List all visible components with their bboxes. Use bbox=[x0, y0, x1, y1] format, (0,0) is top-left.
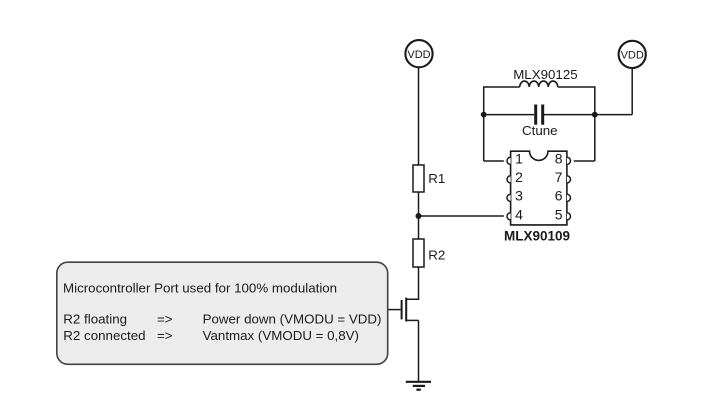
node VMODU junction bbox=[416, 213, 422, 219]
svg-text:=>: => bbox=[157, 311, 173, 326]
svg-text:7: 7 bbox=[555, 169, 563, 185]
power symbol VDD (left) bbox=[405, 40, 432, 67]
svg-text:Vantmax (VMODU = 0,8V): Vantmax (VMODU = 0,8V) bbox=[203, 328, 359, 343]
svg-text:5: 5 bbox=[555, 206, 563, 222]
pin 6 bump bbox=[567, 194, 571, 201]
svg-text:=>: => bbox=[157, 328, 173, 343]
pin 2 bump bbox=[507, 176, 511, 183]
inductor MLX90125 coil bbox=[520, 81, 558, 87]
wire to pin 8 bbox=[574, 160, 595, 162]
wire R2 to transistor drain bbox=[407, 267, 419, 299]
wire VDD to R1 bbox=[418, 67, 420, 165]
wire VDD right down to tank bbox=[631, 68, 633, 115]
svg-text:Power down (VMODU = VDD): Power down (VMODU = VDD) bbox=[203, 311, 382, 326]
svg-text:2: 2 bbox=[515, 169, 523, 185]
svg-text:VDD: VDD bbox=[407, 49, 430, 61]
pin 1 bump bbox=[507, 157, 511, 164]
callout note box bbox=[57, 262, 388, 364]
resistor R2 bbox=[413, 239, 424, 267]
note line 2 bbox=[63, 311, 381, 326]
svg-text:R2 connected: R2 connected bbox=[63, 328, 145, 343]
transistor Q1 (NMOS) bbox=[402, 298, 419, 322]
svg-text:R2 floating: R2 floating bbox=[63, 311, 127, 326]
wire gate lead from callout bbox=[388, 309, 401, 311]
wire capacitor row bbox=[484, 114, 633, 116]
svg-text:6: 6 bbox=[555, 188, 563, 204]
node tank left junction bbox=[481, 112, 487, 118]
svg-text:MLX90125: MLX90125 bbox=[513, 67, 577, 82]
power symbol VDD (right) bbox=[619, 41, 646, 68]
svg-text:Microcontroller Port used for: Microcontroller Port used for 100% modul… bbox=[63, 280, 337, 295]
wire tank top right bbox=[558, 87, 595, 161]
pin 3 bump bbox=[507, 194, 511, 201]
resistor R1 bbox=[413, 165, 424, 192]
svg-text:4: 4 bbox=[515, 206, 523, 222]
op-amp U1 MLX90109 body bbox=[511, 151, 567, 225]
pin 5 bump bbox=[567, 213, 571, 220]
wire node to pin 4 bbox=[419, 215, 504, 217]
svg-text:Ctune: Ctune bbox=[522, 123, 558, 138]
pin 7 bump bbox=[567, 176, 571, 183]
svg-text:8: 8 bbox=[555, 150, 563, 166]
wire tank top left bbox=[484, 87, 520, 161]
svg-text:VDD: VDD bbox=[621, 50, 644, 62]
wire to pin 1 bbox=[484, 160, 504, 162]
pin 4 bump bbox=[507, 213, 511, 220]
svg-text:1: 1 bbox=[515, 150, 523, 166]
pin 8 bump bbox=[567, 157, 571, 164]
wire R1 to R2 bbox=[418, 192, 420, 239]
svg-text:R2: R2 bbox=[428, 247, 445, 262]
wire source to ground bbox=[418, 320, 420, 381]
capacitor Ctune bbox=[534, 105, 544, 125]
svg-text:R1: R1 bbox=[428, 171, 445, 186]
node tank right junction bbox=[592, 112, 598, 118]
svg-text:3: 3 bbox=[515, 188, 523, 204]
ground bbox=[406, 382, 431, 390]
svg-text:MLX90109: MLX90109 bbox=[504, 229, 570, 244]
note line 3 bbox=[63, 328, 359, 343]
